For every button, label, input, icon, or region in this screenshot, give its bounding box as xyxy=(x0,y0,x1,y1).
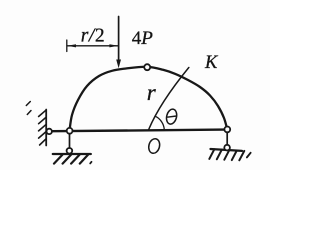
main left pin xyxy=(67,128,73,134)
stray hatch specks upper-left xyxy=(26,102,31,115)
right vertical link xyxy=(226,132,228,144)
force 4P arrowhead xyxy=(116,60,121,69)
svg-text:4P: 4P xyxy=(132,28,154,49)
arch arc xyxy=(70,67,228,131)
dimension left arrowhead xyxy=(67,44,76,47)
force 4P line xyxy=(118,17,120,62)
top hinge xyxy=(144,64,150,70)
angle arc theta xyxy=(155,116,164,130)
right ground line xyxy=(211,149,243,151)
right pin xyxy=(224,126,230,132)
left ground hatches xyxy=(54,155,88,164)
label O (drawn oval) xyxy=(147,137,161,154)
right roller pin xyxy=(224,145,230,151)
right ground hatches xyxy=(209,149,244,160)
base line chord xyxy=(53,130,225,132)
left wall line xyxy=(45,110,47,146)
left bottom roller pin xyxy=(67,148,73,154)
left ground line xyxy=(53,153,91,155)
svg-text:K: K xyxy=(204,53,219,73)
wall pin xyxy=(47,129,52,134)
small mark right of ground xyxy=(90,162,91,164)
dimension r/2 line xyxy=(67,45,118,47)
label theta (drawn) xyxy=(165,108,178,125)
detached hatch far right xyxy=(247,153,251,158)
wall hatch strokes xyxy=(39,110,46,145)
svg-text:r/2: r/2 xyxy=(81,26,105,47)
left vertical link xyxy=(69,134,71,148)
dimension extension tick xyxy=(66,40,68,52)
pin circles xyxy=(47,64,231,153)
svg-text:r: r xyxy=(147,80,157,105)
dimension right arrowhead xyxy=(109,44,118,47)
radius line r to K (slightly bowed) xyxy=(148,68,189,131)
